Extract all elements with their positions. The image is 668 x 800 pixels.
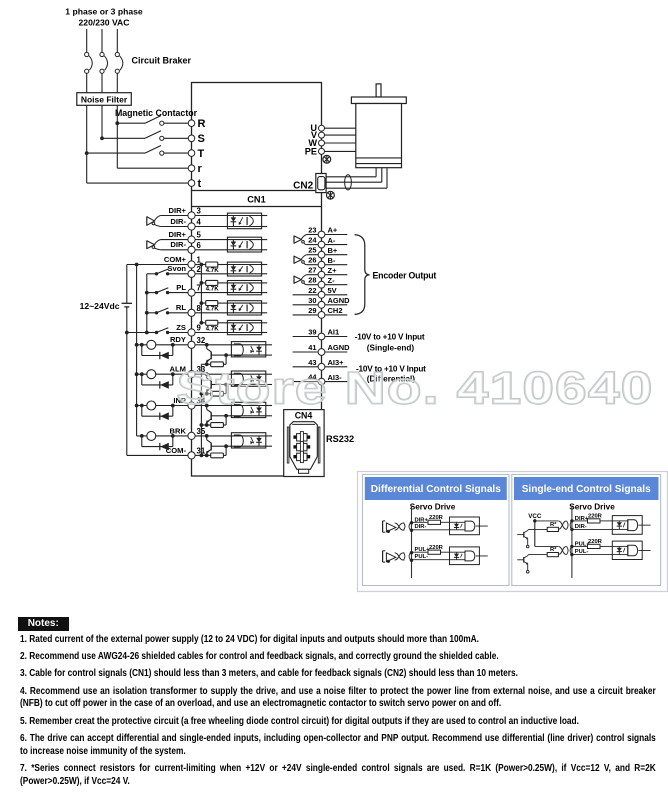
optocoupler DIR (single panel) bbox=[612, 516, 650, 535]
wire pin4 to opto bbox=[195, 226, 227, 228]
watermark Store No. 410640 bbox=[177, 363, 654, 413]
svg-text:4.7K: 4.7K bbox=[206, 286, 220, 293]
connector CN4 shell bbox=[287, 422, 320, 474]
svg-text:S: S bbox=[198, 133, 205, 145]
wire phase R drop bbox=[116, 105, 118, 123]
optocoupler output RDY bbox=[231, 342, 272, 357]
wire PUL- (diff panel) bbox=[412, 559, 450, 561]
svg-text:DIR-: DIR- bbox=[415, 524, 427, 530]
encoder output brace bbox=[355, 235, 370, 315]
label DIR+ (single panel) bbox=[575, 516, 589, 522]
diode INP flyback bbox=[140, 404, 175, 420]
svg-text:Svon: Svon bbox=[167, 264, 186, 273]
svg-text:5: 5 bbox=[197, 231, 202, 240]
line driver DIR pair 2 bbox=[147, 240, 188, 250]
svg-text:PUL-: PUL- bbox=[415, 554, 429, 560]
wire phase S drop bbox=[101, 105, 103, 138]
pin 44 AI3- bbox=[293, 373, 348, 385]
wire INP external bbox=[137, 405, 189, 407]
svg-text:T: T bbox=[198, 148, 205, 160]
pin 22 5V bbox=[308, 286, 347, 298]
svg-text:22: 22 bbox=[308, 286, 316, 295]
encoder cable wire 2 bbox=[326, 168, 382, 183]
wire t feed bbox=[87, 153, 189, 183]
label PUL+ (single panel) bbox=[575, 541, 591, 547]
svg-text:ZS: ZS bbox=[176, 323, 186, 332]
pin 30 AGND bbox=[308, 296, 350, 308]
emitter return rail bbox=[200, 364, 204, 457]
svg-text:6: 6 bbox=[197, 241, 202, 250]
pin 27 Z+ bbox=[308, 266, 347, 278]
node DIR boundary bbox=[570, 519, 573, 531]
pin 23 A+ bbox=[308, 226, 347, 238]
optocoupler input RL bbox=[227, 301, 267, 315]
label 220R (diff panel) bbox=[429, 545, 444, 551]
svg-text:4.7K: 4.7K bbox=[206, 267, 220, 274]
svg-text:t: t bbox=[198, 178, 202, 190]
svg-text:Encoder Output: Encoder Output bbox=[373, 271, 437, 281]
label 220R (single panel) bbox=[588, 514, 603, 520]
wire PL branch bbox=[218, 282, 228, 284]
wire pin3 to opto bbox=[195, 215, 227, 217]
optocoupler output INP bbox=[231, 402, 272, 417]
pin 5 DIR+ bbox=[168, 230, 201, 243]
svg-text:4: 4 bbox=[197, 218, 202, 227]
resistor 4.7K Svon bbox=[206, 262, 220, 274]
encoder cable wire 1 bbox=[326, 168, 376, 177]
terminal R pin bbox=[188, 118, 205, 130]
svg-text:-10V to +10 V Input: -10V to +10 V Input bbox=[355, 333, 425, 342]
relay coil BRK bbox=[147, 431, 156, 440]
svg-text:(Single-end): (Single-end) bbox=[367, 344, 415, 353]
noise filter box bbox=[77, 93, 132, 106]
transistor ALM bbox=[205, 372, 232, 395]
svg-text:CN1: CN1 bbox=[247, 195, 265, 205]
svg-text:12~24Vdc: 12~24Vdc bbox=[80, 301, 120, 311]
optocoupler PUL (single panel) bbox=[612, 541, 650, 559]
node VCC bbox=[533, 519, 536, 522]
label PUL- (single panel) bbox=[575, 549, 589, 555]
svg-text:Servo Drive: Servo Drive bbox=[410, 503, 456, 512]
wire Svon branch bbox=[218, 264, 228, 266]
signal panels container bbox=[358, 472, 668, 592]
svg-text:VCC: VCC bbox=[528, 513, 542, 520]
svg-text:DIR-: DIR- bbox=[575, 524, 587, 530]
node battery to ZS bbox=[125, 331, 129, 335]
line driver PUL (diff panel) bbox=[383, 551, 414, 563]
svg-text:30: 30 bbox=[308, 296, 316, 305]
svg-text:DIR-: DIR- bbox=[170, 217, 186, 226]
optocoupler output BRK bbox=[231, 433, 272, 448]
wire pin RL to opto bbox=[195, 312, 227, 314]
drive block outline bbox=[192, 83, 322, 477]
single-end panel header bbox=[514, 477, 659, 500]
svg-text:4.7K: 4.7K bbox=[206, 325, 220, 332]
line driver encoder pair 1 bbox=[294, 235, 318, 245]
svg-text:Noise Filter: Noise Filter bbox=[81, 94, 128, 104]
svg-text:26: 26 bbox=[308, 256, 316, 265]
pin 4 DIR- bbox=[170, 217, 201, 230]
switch Svon bbox=[147, 269, 188, 275]
wire DIR+ inside bbox=[572, 519, 612, 523]
label PUL- (diff panel) bbox=[415, 554, 429, 560]
resistor INP base bbox=[201, 416, 226, 428]
contactor switch R bbox=[115, 116, 188, 126]
connector CN1 band bbox=[192, 191, 322, 207]
wire ZS branch bbox=[218, 322, 228, 324]
notes heading bbox=[18, 617, 69, 631]
wire encoder single bbox=[293, 314, 319, 316]
pin 35 BRK bbox=[170, 426, 206, 439]
svg-text:3: 3 bbox=[197, 207, 202, 216]
wire phase 1 breaker to filter bbox=[86, 73, 88, 92]
cable loop marker bbox=[345, 175, 352, 190]
twisted pair DIR (single panel) bbox=[558, 521, 571, 530]
label DIR- (diff panel) bbox=[415, 524, 427, 530]
wire DIR+ from VCC bbox=[535, 520, 558, 522]
wire COM+ external bbox=[127, 264, 188, 266]
wire phase 2 supply drop bbox=[101, 29, 103, 52]
svg-text:B-: B- bbox=[328, 256, 336, 265]
wire BRK external bbox=[137, 435, 189, 437]
label RS232 bbox=[326, 434, 354, 444]
pin 29 CH2 bbox=[308, 306, 347, 318]
pin 3 DIR+ bbox=[168, 206, 201, 219]
wire PUL+ inside bbox=[572, 544, 612, 548]
transistor BRK bbox=[205, 434, 232, 457]
label 220R (single panel) bbox=[588, 539, 603, 545]
pin 9 ZS bbox=[176, 323, 201, 336]
wire encoder single bbox=[293, 304, 319, 306]
notes list bbox=[20, 634, 656, 788]
pin 39 AI1 bbox=[293, 328, 348, 340]
wire RDY external bbox=[137, 344, 189, 346]
pin 1 COM+ bbox=[164, 255, 202, 268]
svg-text:R: R bbox=[198, 118, 206, 130]
pin 24 A- bbox=[308, 236, 347, 248]
pin 31 COM- bbox=[166, 446, 206, 459]
optocoupler DIR input 1 bbox=[227, 213, 267, 229]
wire PUL- collector bbox=[528, 554, 547, 557]
line driver encoder pair 2 bbox=[294, 255, 318, 265]
pin 6 DIR- bbox=[170, 240, 201, 253]
svg-text:PL: PL bbox=[176, 283, 186, 292]
svg-text:Differential Control Signals: Differential Control Signals bbox=[371, 484, 501, 495]
switch PL bbox=[147, 288, 188, 295]
wire COM+ pin1 entry bbox=[195, 264, 206, 266]
wire ZS branch left bbox=[201, 322, 205, 324]
wire COM- internal bbox=[195, 454, 207, 456]
wire pin ALM internal bbox=[195, 373, 231, 375]
coil supply rail bbox=[135, 265, 139, 436]
servo drive boundary (single) bbox=[571, 506, 573, 579]
terminal W pin bbox=[308, 138, 355, 148]
svg-text:RS232: RS232 bbox=[326, 434, 354, 444]
resistor 4.7K PL bbox=[206, 280, 220, 292]
diode RDY flyback bbox=[140, 343, 175, 359]
label Servo Drive (diff) bbox=[410, 503, 456, 512]
svg-text:AGND: AGND bbox=[328, 296, 351, 305]
terminal PE pin bbox=[305, 146, 356, 156]
svg-text:7: 7 bbox=[197, 284, 201, 293]
svg-text:29: 29 bbox=[308, 306, 316, 315]
label VCC bbox=[528, 513, 542, 520]
label analog input single-end bbox=[355, 333, 425, 353]
svg-text:Z-: Z- bbox=[328, 276, 336, 285]
CN4 pin row 3 bbox=[294, 451, 310, 462]
circuit breaker NFB pole 2 bbox=[100, 52, 108, 73]
optocoupler DIR input 2 bbox=[227, 237, 267, 252]
resistor 4.7K RL bbox=[206, 301, 220, 313]
wire pin ZS to opto bbox=[195, 332, 227, 334]
switch ZS bbox=[147, 328, 188, 334]
resistor 4.7K ZS bbox=[206, 320, 220, 332]
wire PUL- inside bbox=[572, 554, 612, 556]
terminal r pin bbox=[188, 163, 202, 175]
wire phase 2 breaker to filter bbox=[101, 73, 103, 92]
wire pin Svon to opto bbox=[195, 273, 227, 275]
svg-text:4.7K: 4.7K bbox=[206, 306, 220, 313]
label 220R (diff panel) bbox=[429, 515, 444, 521]
terminal t pin bbox=[188, 178, 201, 190]
transistor INP bbox=[205, 404, 232, 427]
wire DIR- (diff panel) bbox=[412, 529, 450, 531]
svg-text:AI1: AI1 bbox=[328, 328, 340, 337]
encoder cable wire 3 bbox=[326, 168, 387, 189]
transistor Q PUL bbox=[517, 555, 529, 573]
transistor RDY bbox=[205, 343, 232, 366]
wire RL branch left bbox=[201, 302, 205, 304]
pin 33 ALM bbox=[170, 365, 206, 378]
twisted pair PUL (single panel) bbox=[558, 546, 571, 554]
svg-text:PE: PE bbox=[305, 146, 317, 156]
wire COM- external bbox=[127, 454, 188, 456]
line driver encoder pair 3 bbox=[294, 275, 318, 285]
svg-text:CN2: CN2 bbox=[293, 181, 313, 192]
svg-text:220/230 VAC: 220/230 VAC bbox=[79, 18, 130, 28]
optocoupler input PL bbox=[227, 281, 267, 295]
wire pin6 to opto bbox=[195, 249, 227, 251]
diode BRK flyback bbox=[140, 434, 175, 450]
label PUL+ (diff panel) bbox=[415, 547, 431, 553]
svg-text:DIR+: DIR+ bbox=[168, 230, 186, 239]
wire DIR- inside bbox=[572, 528, 612, 530]
optocoupler output ALM bbox=[231, 371, 272, 386]
svg-text:BRK: BRK bbox=[170, 426, 187, 435]
terminal U pin bbox=[310, 123, 355, 133]
wire PUL+ (diff panel) bbox=[412, 550, 450, 554]
battery 12-24Vdc bbox=[80, 265, 132, 456]
terminal T pin bbox=[188, 148, 204, 160]
svg-text:DIR-: DIR- bbox=[170, 240, 186, 249]
wire phase 3 supply drop bbox=[116, 29, 118, 52]
svg-text:9: 9 bbox=[197, 324, 202, 333]
pin 34 INP bbox=[173, 396, 206, 409]
wire pin INP internal bbox=[195, 405, 231, 407]
svg-text:RL: RL bbox=[176, 303, 186, 312]
differential panel box bbox=[363, 475, 510, 586]
differential panel header bbox=[365, 477, 507, 500]
pin 41 AGND bbox=[293, 343, 351, 355]
switch RL bbox=[147, 308, 188, 314]
svg-text:23: 23 bbox=[308, 226, 316, 235]
connector CN2 bbox=[293, 174, 326, 193]
svg-text:8: 8 bbox=[197, 304, 202, 313]
node PUL boundary bbox=[570, 545, 573, 557]
optocoupler input ZS bbox=[227, 320, 267, 334]
label DIR- (single panel) bbox=[575, 524, 587, 530]
servo drive boundary (diff) bbox=[411, 506, 413, 579]
label DIR+ (diff panel) bbox=[415, 517, 429, 523]
wire pin BRK internal bbox=[195, 435, 231, 437]
resistor RDY base bbox=[201, 355, 226, 367]
single-end panel box bbox=[512, 475, 661, 586]
contactor switch S bbox=[100, 131, 188, 141]
svg-text:A-: A- bbox=[328, 236, 336, 245]
svg-text:27: 27 bbox=[308, 266, 316, 275]
line driver DIR pair 1 bbox=[147, 216, 188, 227]
earth symbol at PE bbox=[323, 155, 331, 163]
switch common rail bbox=[145, 274, 149, 335]
wire ALM external bbox=[137, 373, 189, 375]
resistor R* DIR bbox=[547, 522, 558, 532]
wire phase T drop bbox=[86, 105, 88, 153]
svg-text:RDY: RDY bbox=[170, 335, 186, 344]
circuit breaker NFB pole 1 bbox=[85, 52, 93, 73]
svg-text:Single-end Control Signals: Single-end Control Signals bbox=[522, 484, 651, 495]
svg-text:AGND: AGND bbox=[328, 343, 351, 352]
relay coil ALM bbox=[147, 370, 156, 379]
wire ZS to battery rail bbox=[127, 332, 147, 334]
wire DIR- collector bbox=[528, 528, 547, 531]
svg-text:25: 25 bbox=[308, 246, 316, 255]
servo motor bbox=[351, 84, 406, 168]
resistor BRK base bbox=[201, 446, 226, 458]
diode ALM flyback bbox=[140, 372, 175, 388]
earth symbol at CN2 bbox=[327, 191, 335, 199]
pin 32 RDY bbox=[170, 335, 206, 348]
wire RL branch bbox=[218, 302, 228, 304]
svg-text:32: 32 bbox=[197, 336, 206, 345]
wire phase 1 supply drop bbox=[86, 29, 88, 52]
svg-text:B+: B+ bbox=[328, 246, 338, 255]
terminal S pin bbox=[188, 133, 205, 145]
svg-text:r: r bbox=[198, 163, 203, 175]
wire pin PL to opto bbox=[195, 292, 227, 294]
optocoupler PUL (diff panel) bbox=[450, 547, 488, 565]
node COM+ internal rail bbox=[200, 263, 204, 325]
relay coil RDY bbox=[147, 340, 156, 349]
wire DIR+ (diff panel) bbox=[412, 520, 450, 524]
label 3-phase supply bbox=[65, 7, 143, 28]
resistor ALM base bbox=[201, 385, 226, 397]
svg-text:1 phase or 3 phase: 1 phase or 3 phase bbox=[65, 7, 143, 17]
pin 2 Svon bbox=[167, 264, 201, 277]
svg-text:24: 24 bbox=[308, 236, 317, 245]
wire phase 3 breaker to filter bbox=[116, 73, 118, 92]
pin 8 RL bbox=[176, 303, 202, 316]
wire pin5 to opto bbox=[195, 239, 227, 241]
svg-text:28: 28 bbox=[308, 276, 316, 285]
resistor R* PUL bbox=[547, 547, 558, 557]
svg-text:PUL-: PUL- bbox=[575, 549, 589, 555]
contactor switch T bbox=[85, 146, 188, 156]
CN4 pin row 2 bbox=[294, 441, 310, 452]
label Magnetic Contactor bbox=[115, 108, 198, 118]
svg-text:Magnetic Contactor: Magnetic Contactor bbox=[115, 108, 198, 118]
svg-text:39: 39 bbox=[308, 328, 316, 337]
svg-text:Store No. 410640: Store No. 410640 bbox=[177, 363, 654, 413]
CN4 pin row 1 bbox=[294, 432, 310, 443]
circuit breaker NFB pole 3 bbox=[115, 52, 123, 73]
svg-text:Z+: Z+ bbox=[328, 266, 338, 275]
line driver DIR (diff panel) bbox=[383, 521, 414, 533]
svg-text:Servo Drive: Servo Drive bbox=[569, 503, 615, 512]
pin 7 PL bbox=[176, 283, 201, 296]
optocoupler input Svon bbox=[227, 262, 267, 276]
svg-text:A+: A+ bbox=[328, 226, 338, 235]
pin 43 AI3+ bbox=[293, 358, 348, 370]
optocoupler DIR (diff panel) bbox=[450, 517, 488, 535]
pin 25 B+ bbox=[308, 246, 347, 258]
pin 26 B- bbox=[308, 256, 347, 268]
svg-text:CH2: CH2 bbox=[328, 306, 343, 315]
svg-text:DIR+: DIR+ bbox=[168, 206, 186, 215]
label Circuit Braker bbox=[132, 56, 192, 66]
node COM+ to coil rail bbox=[135, 263, 139, 267]
svg-text:Circuit Braker: Circuit Braker bbox=[132, 56, 192, 66]
wire encoder single bbox=[293, 294, 319, 296]
pin 28 Z- bbox=[308, 276, 347, 288]
wire PL branch left bbox=[201, 282, 205, 284]
label analog input differential bbox=[356, 364, 426, 383]
label Encoder Output bbox=[373, 271, 437, 281]
label Servo Drive (single) bbox=[569, 503, 615, 512]
connector CN4 box bbox=[284, 410, 324, 477]
svg-text:COM+: COM+ bbox=[164, 255, 187, 264]
VCC rail bbox=[535, 519, 558, 547]
wire r feed bbox=[117, 123, 188, 168]
terminal V pin bbox=[311, 130, 356, 140]
wire pin RDY internal bbox=[195, 344, 231, 346]
svg-text:41: 41 bbox=[308, 343, 316, 352]
relay coil INP bbox=[147, 401, 156, 410]
transistor Q DIR bbox=[517, 530, 529, 548]
svg-text:5V: 5V bbox=[328, 286, 337, 295]
